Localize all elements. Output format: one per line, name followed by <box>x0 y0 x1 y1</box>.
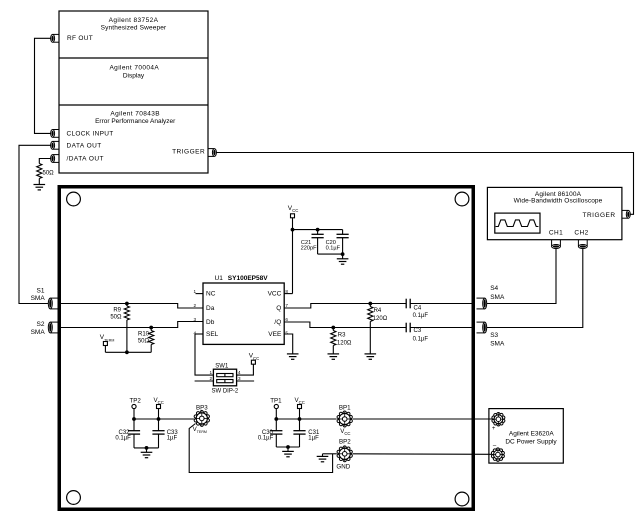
svg-text:3: 3 <box>238 376 241 381</box>
svg-text:SMA: SMA <box>490 294 505 301</box>
svg-text:1: 1 <box>209 370 212 375</box>
svg-text:VCC: VCC <box>288 205 299 213</box>
svg-text:/Q: /Q <box>274 319 281 326</box>
svg-text:VTERM: VTERM <box>100 334 115 342</box>
svg-text:0.1µF: 0.1µF <box>258 435 274 441</box>
svg-text:U1: U1 <box>215 275 224 282</box>
svg-text:120Ω: 120Ω <box>337 341 352 347</box>
svg-text:Wide-Bandwidth Oscilloscope: Wide-Bandwidth Oscilloscope <box>514 197 603 204</box>
svg-text:+: + <box>492 426 496 432</box>
svg-text:R4: R4 <box>374 308 382 314</box>
svg-text:CH2: CH2 <box>574 230 588 237</box>
svg-text:SMA: SMA <box>490 340 505 347</box>
svg-text:Display: Display <box>123 72 145 79</box>
svg-text:C3: C3 <box>414 328 422 334</box>
svg-text:1µF: 1µF <box>167 435 178 441</box>
svg-text:Agilent 70843B: Agilent 70843B <box>110 110 160 117</box>
svg-text:0.1µF: 0.1µF <box>326 245 341 251</box>
svg-text:3: 3 <box>193 317 196 322</box>
svg-text:Agilent 70004A: Agilent 70004A <box>109 65 159 72</box>
svg-text:S3: S3 <box>490 332 498 339</box>
svg-text:RF OUT: RF OUT <box>67 35 93 42</box>
svg-text:DC Power Supply: DC Power Supply <box>505 439 557 446</box>
svg-text:Da: Da <box>206 305 215 312</box>
svg-text:SMA: SMA <box>31 329 46 336</box>
svg-text:50Ω: 50Ω <box>138 338 150 344</box>
svg-text:7: 7 <box>285 303 288 308</box>
svg-text:S1: S1 <box>37 287 45 294</box>
svg-text:BP2: BP2 <box>339 439 351 446</box>
svg-text:0.1µF: 0.1µF <box>413 337 429 343</box>
svg-text:NC: NC <box>206 291 216 298</box>
svg-text:TP1: TP1 <box>270 398 282 405</box>
svg-text:R9: R9 <box>113 308 121 314</box>
svg-text:0.1µF: 0.1µF <box>115 435 131 441</box>
svg-text:SW1: SW1 <box>215 363 229 369</box>
svg-text:1: 1 <box>193 289 196 294</box>
svg-text:CH1: CH1 <box>549 230 563 237</box>
svg-text:Synthesized Sweeper: Synthesized Sweeper <box>101 25 167 32</box>
svg-text:0.1µF: 0.1µF <box>413 313 429 319</box>
svg-text:S2: S2 <box>37 321 45 328</box>
svg-text:/DATA OUT: /DATA OUT <box>67 156 104 163</box>
svg-text:TRIGGER: TRIGGER <box>582 212 615 219</box>
svg-text:50Ω: 50Ω <box>110 315 122 321</box>
svg-text:VCC: VCC <box>295 397 305 405</box>
svg-text:TRIGGER: TRIGGER <box>172 149 205 156</box>
svg-text:Db: Db <box>206 319 215 326</box>
svg-text:VCC: VCC <box>268 291 282 298</box>
svg-text:R10: R10 <box>138 331 150 337</box>
svg-text:Agilent E3620A: Agilent E3620A <box>509 430 554 437</box>
svg-text:BP3: BP3 <box>196 404 208 411</box>
svg-text:SMA: SMA <box>31 295 46 302</box>
svg-text:VCC: VCC <box>154 397 164 405</box>
svg-text:1µF: 1µF <box>308 435 319 441</box>
svg-text:SY100EP58V: SY100EP58V <box>228 275 268 282</box>
svg-text:C4: C4 <box>414 306 422 312</box>
svg-text:CLOCK INPUT: CLOCK INPUT <box>67 130 114 137</box>
svg-text:VEE: VEE <box>268 331 282 338</box>
svg-text:6: 6 <box>285 317 288 322</box>
svg-text:4: 4 <box>238 370 241 375</box>
svg-text:2: 2 <box>209 376 212 381</box>
svg-text:DATA OUT: DATA OUT <box>67 142 102 149</box>
svg-text:S4: S4 <box>490 285 498 292</box>
svg-text:Agilent 83752A: Agilent 83752A <box>109 17 159 24</box>
svg-text:120Ω: 120Ω <box>373 316 388 322</box>
svg-text:GND: GND <box>336 464 350 471</box>
svg-text:VTERM: VTERM <box>193 426 207 434</box>
svg-text:220pF: 220pF <box>301 245 317 251</box>
svg-text:50Ω: 50Ω <box>43 171 55 177</box>
svg-text:SW DIP-2: SW DIP-2 <box>212 389 239 395</box>
svg-text:Error Performance Analyzer: Error Performance Analyzer <box>95 118 176 125</box>
svg-text:R3: R3 <box>338 332 346 338</box>
svg-text:TP2: TP2 <box>130 398 142 405</box>
svg-text:BP1: BP1 <box>339 404 351 411</box>
svg-text:SEL: SEL <box>206 331 219 338</box>
svg-text:VCC: VCC <box>249 353 260 361</box>
svg-text:VCC: VCC <box>340 428 350 436</box>
svg-text:2: 2 <box>193 303 196 308</box>
svg-text:Q: Q <box>276 305 281 312</box>
svg-text:5: 5 <box>285 330 288 335</box>
